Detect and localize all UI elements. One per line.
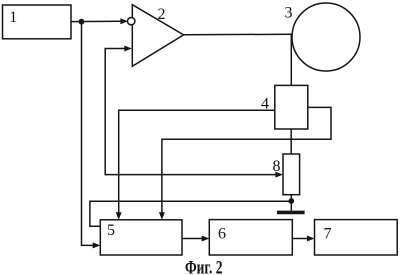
- wire: top junction down to block 5 left lower entry (arrow): [82, 24, 94, 245]
- wire: resistor bottom to ground node: [290, 195, 292, 201]
- svg-text:6: 6: [218, 225, 226, 242]
- resistor R8: [283, 154, 300, 195]
- wire: lower amp input net down to resistor 8: [105, 49, 275, 175]
- op-amp U2 (amplifier triangle): [132, 5, 183, 67]
- svg-text:1: 1: [9, 9, 17, 26]
- block 1: [3, 5, 72, 39]
- wire: block 4 right output loop to block 5 top (second arrow): [162, 107, 331, 212]
- svg-text:7: 7: [324, 225, 332, 242]
- wire: block1 output to amp inverting input: [71, 20, 122, 22]
- wire: amp output to generator 3: [184, 33, 292, 35]
- wire: node to ground: [290, 201, 292, 211]
- svg-text:Фиг. 2: Фиг. 2: [185, 258, 223, 275]
- wire: block 4 left output to block 5 top (first arrow): [119, 110, 275, 213]
- generator circle 3: [292, 3, 360, 71]
- svg-text:3: 3: [285, 5, 293, 22]
- svg-text:5: 5: [107, 222, 115, 239]
- ground: [277, 211, 305, 215]
- block 6: [209, 220, 292, 255]
- wire: ground node to block 5 left upper entry: [90, 201, 291, 226]
- wire: block 4 bottom to resistor 8: [290, 129, 292, 154]
- block 7: [315, 220, 398, 255]
- wire: block 6 to block 7: [292, 238, 307, 240]
- svg-text:8: 8: [273, 158, 281, 175]
- svg-text:2: 2: [158, 6, 166, 23]
- node: ground junction dot: [288, 198, 294, 204]
- wire: block 5 to block 6: [182, 238, 203, 240]
- block 5: [100, 220, 182, 255]
- node: junction dot under wire: [79, 19, 85, 25]
- wire: output node down to block 4: [290, 34, 292, 85]
- block 4: [275, 85, 308, 129]
